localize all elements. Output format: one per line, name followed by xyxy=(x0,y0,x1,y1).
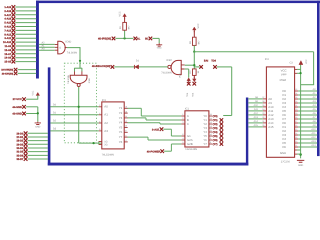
wire IC3.Y4 to IC1.C xyxy=(128,122,161,124)
svg-text:AL: AL xyxy=(137,37,141,40)
svg-text:&: & xyxy=(59,46,61,49)
svg-text:A12: A12 xyxy=(254,112,259,115)
wire to IC4D input 3 xyxy=(39,49,55,51)
svg-text:A14: A14 xyxy=(254,120,259,123)
svg-text:VCC: VCC xyxy=(178,73,181,78)
svg-text:13: 13 xyxy=(210,121,212,124)
wire IC2 right pin A11 xyxy=(295,134,299,136)
power VCC R2 xyxy=(193,27,197,30)
xref left of R3 xyxy=(187,82,191,86)
svg-text:A11: A11 xyxy=(312,132,317,135)
svg-text:1-A19: 1-A19 xyxy=(4,6,11,9)
svg-text:27C256: 27C256 xyxy=(281,160,291,163)
ic IC3 body xyxy=(102,102,124,149)
svg-text:23: 23 xyxy=(262,112,264,115)
junction gate output on D0 xyxy=(78,106,80,108)
svg-text:A2: A2 xyxy=(104,121,108,125)
svg-text:74LS244N: 74LS244N xyxy=(102,153,114,156)
svg-text:GND: GND xyxy=(157,46,162,49)
wire IC4C input bottom xyxy=(185,68,189,70)
svg-text:11: 11 xyxy=(210,129,212,132)
pin IC1 Y2 with xref xyxy=(209,123,213,125)
wire IPS net xyxy=(115,37,133,39)
svg-text:40-INDACK(30): 40-INDACK(30) xyxy=(92,65,111,68)
svg-text:20-IOR(30): 20-IOR(30) xyxy=(2,72,14,75)
svg-text:Y7: Y7 xyxy=(119,135,123,139)
pin IC3 Y5 xyxy=(124,127,128,129)
svg-text:12-A8: 12-A8 xyxy=(4,49,11,52)
pin IC1 G2A xyxy=(181,139,185,141)
svg-text:16: 16 xyxy=(295,124,297,127)
svg-text:VCC: VCC xyxy=(32,90,35,95)
svg-text:4-A16: 4-A16 xyxy=(4,18,11,21)
svg-text:(Y5): (Y5) xyxy=(213,135,218,138)
wire IC3 input D3 xyxy=(50,130,98,132)
wire IC3.Y3 to IC1.B xyxy=(128,117,147,119)
ground symbol mid xyxy=(156,43,162,46)
wire R2 bottom xyxy=(193,45,195,51)
wire IC2 right pin A10 xyxy=(295,130,299,132)
wire IC4C input top xyxy=(185,64,195,66)
pin IC1 Y4 with xref xyxy=(209,131,213,133)
junction R1 bottom xyxy=(123,37,125,39)
wire to vcc flag xyxy=(188,69,190,78)
svg-text:12: 12 xyxy=(210,125,212,128)
svg-text:A1: A1 xyxy=(104,113,108,117)
svg-text:9: 9 xyxy=(210,137,211,140)
wire IC3 input D1 xyxy=(50,114,98,116)
junction IC4D output xyxy=(79,60,81,62)
power VCC R1 xyxy=(123,14,127,17)
svg-text:A12: A12 xyxy=(311,136,316,139)
svg-text:26-D0: 26-D0 xyxy=(16,132,23,135)
svg-text:(Y7): (Y7) xyxy=(213,143,218,146)
svg-text:G2B: G2B xyxy=(187,142,193,146)
svg-text:40-IPS(30): 40-IPS(30) xyxy=(98,38,111,41)
wire IC2 right pin A9 xyxy=(295,126,299,128)
svg-text:11-A9: 11-A9 xyxy=(5,45,12,48)
svg-text:5: 5 xyxy=(182,141,183,144)
xref 3D xyxy=(149,37,153,41)
svg-text:14: 14 xyxy=(295,132,297,135)
frame sheet2 right edge xyxy=(246,98,248,166)
wire IC2 right pin A0 xyxy=(295,90,299,92)
wire stub to xref BAI xyxy=(194,66,199,68)
ground symbol left xyxy=(35,122,41,125)
pin IC3 Y3 xyxy=(124,117,128,119)
pin IC3 Y4 xyxy=(124,122,128,124)
svg-text:4: 4 xyxy=(99,112,100,115)
wire IC2 right pin A1 xyxy=(295,94,299,96)
pin IC3 Y6 xyxy=(124,131,128,133)
svg-text:Y1: Y1 xyxy=(119,106,123,110)
svg-text:43-GND: 43-GND xyxy=(12,113,22,116)
svg-text:VCC: VCC xyxy=(197,23,200,28)
svg-text:12: 12 xyxy=(295,140,297,143)
svg-text:8: 8 xyxy=(125,130,126,133)
xref TD4 xyxy=(213,65,217,69)
svg-text:IC1: IC1 xyxy=(185,108,190,111)
wire gnd drop xyxy=(158,38,160,43)
pin IC1 Y7 with xref xyxy=(209,143,213,145)
svg-text:25: 25 xyxy=(295,88,297,91)
wire IC2 right pin A2 xyxy=(295,98,299,100)
svg-text:10-A10: 10-A10 xyxy=(3,41,12,44)
wire IC4B input b xyxy=(81,68,83,72)
pin IC1 C xyxy=(181,123,185,125)
svg-text:8: 8 xyxy=(99,128,100,131)
svg-text:25: 25 xyxy=(262,104,264,107)
svg-text:27-VCC: 27-VCC xyxy=(13,98,22,101)
wire IC2 right pin A14 xyxy=(295,146,299,148)
svg-text:A11: A11 xyxy=(254,108,259,111)
wire IC4B input a xyxy=(74,68,76,72)
svg-text:BAI: BAI xyxy=(204,59,209,62)
pin IC1 Y3 with xref xyxy=(209,127,213,129)
svg-text:24: 24 xyxy=(262,108,264,111)
wire vcc riser xyxy=(37,95,39,99)
power VCC arrow IC2 top xyxy=(299,61,303,65)
frame sheet2 bottom edge xyxy=(48,163,249,166)
pin IC1 Y1 with xref xyxy=(209,119,213,121)
junction enable net xyxy=(92,142,94,144)
pin IC2 OE xyxy=(295,149,298,151)
wire IC2 left pin A15 xyxy=(248,126,263,128)
svg-text:VCC: VCC xyxy=(305,59,308,64)
power flag up-arrow xyxy=(187,78,191,81)
svg-text:12: 12 xyxy=(125,120,127,123)
resistor R2 xyxy=(193,37,197,45)
junction gate input xyxy=(193,64,195,66)
pin IC2 GND xyxy=(295,153,298,155)
nand-gate IC4C (mirrored) xyxy=(171,60,181,74)
svg-text:GND: GND xyxy=(280,151,286,155)
pin IC2 VPP xyxy=(295,72,298,74)
wire INDACK to IC4C out xyxy=(114,66,168,68)
svg-text:13: 13 xyxy=(295,136,297,139)
svg-text:Y2: Y2 xyxy=(119,111,123,115)
svg-text:2: 2 xyxy=(182,117,183,120)
svg-text:(Y6): (Y6) xyxy=(213,139,218,142)
svg-text:(Y1): (Y1) xyxy=(213,119,218,122)
svg-text:40-POWER: 40-POWER xyxy=(147,150,161,153)
wire IC3.Y7 to IC1.G2A xyxy=(128,136,149,138)
svg-text:A10: A10 xyxy=(311,128,316,131)
svg-text:21: 21 xyxy=(295,104,297,107)
svg-text:IC4D: IC4D xyxy=(65,41,71,44)
wire TD4 down xyxy=(231,67,233,116)
pin IC1 Y0 with xref xyxy=(209,115,213,117)
resistor R1 xyxy=(123,22,127,30)
svg-text:Y5: Y5 xyxy=(119,125,123,129)
svg-text:(Y3): (Y3) xyxy=(213,127,218,130)
svg-text:3-A17: 3-A17 xyxy=(4,14,11,17)
wire R1 top stem xyxy=(124,18,126,23)
svg-text:IC4C: IC4C xyxy=(166,59,172,62)
selection dashed box around IC4B net xyxy=(64,63,96,143)
wire IC2 left pin A8 xyxy=(248,98,263,100)
frame sheet1 top edge xyxy=(36,1,320,4)
wire to IC4D input 1 xyxy=(39,43,55,45)
wire R3 bottom stem xyxy=(193,75,195,77)
and-gate IC4D xyxy=(58,41,65,54)
svg-text:A13: A13 xyxy=(311,140,316,143)
junction R2 net xyxy=(193,51,195,53)
svg-text:VCC: VCC xyxy=(119,11,122,16)
pin IC1 B xyxy=(181,119,185,121)
svg-text:27-D1: 27-D1 xyxy=(16,136,23,139)
svg-text:27: 27 xyxy=(262,96,264,99)
svg-text:A0: A0 xyxy=(104,105,108,109)
svg-text:30-D4: 30-D4 xyxy=(16,147,23,150)
wire IC2 left pin A10 xyxy=(248,106,263,108)
wire R2 node down xyxy=(193,52,195,69)
wire IC2 right pin A3 xyxy=(295,102,299,104)
svg-text:Y6: Y6 xyxy=(119,130,123,134)
svg-text:A13: A13 xyxy=(254,116,259,119)
wire right return xyxy=(301,84,315,86)
wire to IC4D input 2 xyxy=(39,46,55,48)
pin IC1 Y5 with xref xyxy=(209,135,213,137)
svg-text:8-A12: 8-A12 xyxy=(4,33,11,36)
ic IC1 body xyxy=(185,111,209,147)
svg-text:23: 23 xyxy=(295,96,297,99)
wire IC2 left pin A11 xyxy=(248,110,263,112)
svg-text:24: 24 xyxy=(295,92,297,95)
svg-text:18: 18 xyxy=(295,116,297,119)
svg-text:74LS09N: 74LS09N xyxy=(161,72,172,75)
svg-text:44-GND: 44-GND xyxy=(12,106,22,109)
svg-text:26: 26 xyxy=(262,100,264,103)
svg-text:22: 22 xyxy=(295,100,297,103)
svg-text:8: 8 xyxy=(210,141,211,144)
xref below R3 xyxy=(193,82,197,86)
svg-text:VPP: VPP xyxy=(281,72,287,76)
wire net row2 to top right xyxy=(194,51,313,53)
junction GND net xyxy=(299,153,302,156)
svg-text:2-A18: 2-A18 xyxy=(4,10,11,13)
wire IC2 right pin A7 xyxy=(295,118,299,120)
svg-text:6: 6 xyxy=(182,133,183,136)
wire IC2 right pin A4 xyxy=(295,106,299,108)
svg-text:5-A15: 5-A15 xyxy=(4,22,11,25)
resistor R3 xyxy=(193,69,197,76)
wire R1 bottom xyxy=(124,30,126,38)
svg-text:Y3: Y3 xyxy=(119,116,123,120)
wire to gnd right xyxy=(152,37,159,39)
wire IC2 right pin A13 xyxy=(295,142,299,144)
diode D1 xyxy=(135,65,139,69)
xref AL xyxy=(134,37,138,41)
svg-text:GND: GND xyxy=(298,164,304,167)
svg-text:(Y4): (Y4) xyxy=(213,131,218,134)
svg-text:4: 4 xyxy=(182,137,183,140)
svg-text:20: 20 xyxy=(262,124,264,127)
wire IC2 left pin A14 xyxy=(248,122,263,124)
svg-text:6-A14: 6-A14 xyxy=(4,26,11,29)
wire right drop xyxy=(313,52,315,85)
wire IC2 right pin A6 xyxy=(295,114,299,116)
pin IC3 Y8 xyxy=(124,141,128,143)
pin IC3 Y7 xyxy=(124,136,128,138)
frame sheet2 left edge xyxy=(48,67,51,165)
wire gnd bus vertical right xyxy=(300,64,302,158)
svg-text:15-A5: 15-A5 xyxy=(4,61,11,64)
svg-text:A14: A14 xyxy=(311,144,316,147)
svg-text:4K7: 4K7 xyxy=(128,25,131,30)
xref BAI xyxy=(199,65,203,69)
svg-text:A3: A3 xyxy=(104,129,108,133)
svg-text:19-IOW(30): 19-IOW(30) xyxy=(1,69,13,72)
svg-text:19: 19 xyxy=(295,112,297,115)
svg-text:22: 22 xyxy=(262,116,264,119)
svg-text:(Y0): (Y0) xyxy=(213,115,218,118)
svg-text:14: 14 xyxy=(125,115,127,118)
svg-text:17: 17 xyxy=(295,120,297,123)
svg-text:Y4: Y4 xyxy=(119,121,123,125)
wire IC4B input tie xyxy=(75,67,82,69)
svg-text:20: 20 xyxy=(295,108,297,111)
svg-text:2G: 2G xyxy=(104,144,107,147)
pin IC3 Y1 xyxy=(124,107,128,109)
wire IC3 input D0 xyxy=(50,106,98,108)
wire TD4 right xyxy=(217,66,232,68)
svg-text:11: 11 xyxy=(295,144,297,147)
wire IC2 right pin A8 xyxy=(295,122,299,124)
wire IC3 enable stubs xyxy=(98,141,100,144)
ground symbol bottom right xyxy=(297,160,304,162)
wire IC4D output xyxy=(67,47,80,49)
svg-text:TD4: TD4 xyxy=(211,59,216,62)
svg-text:GND: GND xyxy=(35,125,40,128)
svg-text:15: 15 xyxy=(295,128,297,131)
wire IC4B output to IC3 enables xyxy=(79,142,103,144)
svg-text:10: 10 xyxy=(125,125,127,128)
svg-text:4: 4 xyxy=(125,139,126,142)
svg-text:32-D6: 32-D6 xyxy=(16,154,23,157)
pin IC3 Y2 xyxy=(124,112,128,114)
ic IC2 body xyxy=(266,67,294,157)
svg-text:28-D2: 28-D2 xyxy=(16,140,23,143)
frame sheet1 right edge xyxy=(317,1,320,157)
svg-text:7-A13: 7-A13 xyxy=(4,29,11,32)
wire R2 top stem xyxy=(193,31,195,37)
pin IC2 VCC xyxy=(295,68,298,70)
svg-text:74LS09N: 74LS09N xyxy=(67,51,78,54)
svg-text:Y7: Y7 xyxy=(203,142,207,146)
svg-text:13-A7: 13-A7 xyxy=(4,53,11,56)
pin IC1 G2B xyxy=(181,143,185,145)
svg-text:(Y2): (Y2) xyxy=(213,123,218,126)
svg-text:3: 3 xyxy=(182,121,183,124)
svg-text:IC3: IC3 xyxy=(102,99,107,102)
wire gnd vertical xyxy=(37,107,39,122)
svg-text:31-D5: 31-D5 xyxy=(16,151,23,154)
svg-text:6: 6 xyxy=(125,134,126,137)
svg-text:PGM: PGM xyxy=(280,78,287,82)
pin IC1 G1 xyxy=(181,135,185,137)
wire IC2 left pin A12 xyxy=(248,114,263,116)
svg-text:14-A6: 14-A6 xyxy=(4,57,11,60)
svg-text:4K7: 4K7 xyxy=(197,40,200,45)
power flag down-arrow xyxy=(193,79,197,82)
svg-text:A15: A15 xyxy=(254,124,259,127)
svg-text:14: 14 xyxy=(210,117,212,120)
svg-text:10: 10 xyxy=(210,133,212,136)
wire IC2 left pin A13 xyxy=(248,118,263,120)
junction gnd xyxy=(37,112,39,114)
svg-text:Y8: Y8 xyxy=(119,140,123,144)
svg-text:A15: A15 xyxy=(268,125,274,129)
svg-text:15: 15 xyxy=(210,113,212,116)
svg-text:C: C xyxy=(187,122,189,126)
svg-text:2: 2 xyxy=(99,104,100,107)
svg-text:IC4B: IC4B xyxy=(88,78,91,83)
junction VPP xyxy=(300,72,302,74)
svg-text:18: 18 xyxy=(125,106,127,109)
svg-text:1: 1 xyxy=(182,113,183,116)
frame sheet1 left edge xyxy=(36,1,39,79)
svg-text:29-D3: 29-D3 xyxy=(16,143,23,146)
svg-text:33-D7: 33-D7 xyxy=(16,158,23,161)
power VCC symbol left xyxy=(36,92,40,95)
svg-text:IC2: IC2 xyxy=(265,58,270,61)
and-gate IC4B (rotated, pointing down) xyxy=(70,75,87,83)
svg-text:O6: O6 xyxy=(282,145,286,149)
wire IC2 left pin A9 xyxy=(248,102,263,104)
svg-text:A10: A10 xyxy=(254,104,259,107)
svg-text:9-A11: 9-A11 xyxy=(5,37,12,40)
svg-text:3D: 3D xyxy=(145,37,148,40)
svg-text:74LS138N: 74LS138N xyxy=(185,148,197,151)
svg-text:16: 16 xyxy=(125,110,127,113)
wire IC4B output down xyxy=(78,87,80,143)
svg-text:21: 21 xyxy=(262,120,264,123)
wire IC3.Y1 to IC1.A xyxy=(128,107,142,109)
wire IC2 right pin A12 xyxy=(295,138,299,140)
svg-text:3-A15: 3-A15 xyxy=(152,128,160,131)
pin IC1 Y6 with xref xyxy=(209,139,213,141)
wire IC3 input D2 xyxy=(50,122,98,124)
wire IC4D output vertical xyxy=(79,47,81,68)
svg-text:74LS09N: 74LS09N xyxy=(67,74,70,84)
wire IC2 right pin A5 xyxy=(295,110,299,112)
wire TD4 to Y0 xyxy=(223,115,232,117)
pin IC1 A xyxy=(181,115,185,117)
svg-text:6: 6 xyxy=(99,120,100,123)
